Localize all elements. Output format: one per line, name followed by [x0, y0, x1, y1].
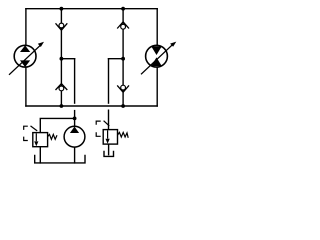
node: top line / left CV column junction	[60, 7, 64, 11]
wire: inner-left vertical below crossover gap to charge pump P2	[74, 111, 76, 127]
motor M1 (variable displacement, right)	[141, 42, 176, 75]
check valve CV1 (top-left, seat below ball)	[56, 23, 68, 30]
wire: left column lower (pump P1 bottom to bottom loop line)	[25, 67, 27, 106]
wire: left check-valve column	[60, 9, 62, 106]
node: left CV column / stub junction	[60, 57, 64, 61]
wire: right check-valve column	[122, 9, 124, 106]
node: bottom loop line / left CV column junction	[60, 104, 64, 108]
wire: inner-left vertical above crossover gap	[74, 59, 76, 103]
wire: right column lower (motor M1 bottom to bottom loop line)	[156, 67, 158, 106]
tank T2	[104, 152, 114, 157]
check valve CV4 (lower-right, seat below ball)	[117, 85, 129, 92]
wire: relief valve RV1 drain to tank line	[39, 147, 41, 163]
wire: right column upper (to motor M1 top)	[156, 9, 158, 46]
relief valve RV2 (right)	[96, 121, 128, 144]
wire: bottom loop line	[26, 105, 157, 107]
wire: relief valve RV2 drain to tank T2	[108, 144, 110, 155]
node: top line / right CV column junction	[121, 7, 125, 11]
wire: inner-right vertical above crossover gap	[108, 59, 110, 103]
check valve CV3 (lower-left, seat above ball)	[56, 84, 68, 91]
wire: charge pump P2 outlet down to tank line	[74, 147, 76, 163]
node: charge pump / RV1 / supply junction	[73, 117, 77, 121]
wire: top loop line	[26, 8, 157, 10]
wire: left column upper (to pump P1 top)	[25, 9, 27, 46]
spring of RV2	[118, 132, 129, 137]
pump P1 (variable displacement, left)	[9, 42, 44, 75]
wire: relief valve RV1 inlet up and over to node	[40, 118, 74, 132]
tank T1 (wide reservoir line with upturned ends)	[35, 155, 85, 163]
wire: left stub to inner vertical	[61, 58, 74, 60]
pilot line of RV2 (dashed)	[96, 121, 101, 125]
charge pump P2 (fixed displacement)	[64, 126, 85, 147]
spring of RV1	[48, 134, 57, 139]
wire: inner-right vertical below crossover gap to relief valve RV2	[108, 110, 110, 129]
check valve CV2 (top-right, seat above ball)	[117, 22, 129, 29]
node: bottom loop line / right CV column junction	[121, 104, 125, 108]
relief valve RV1 (charge relief, left)	[24, 126, 57, 147]
wire: right stub to inner vertical	[109, 58, 124, 60]
node: right CV column / stub junction	[121, 57, 125, 61]
pilot line of RV1 (dashed)	[24, 126, 28, 130]
